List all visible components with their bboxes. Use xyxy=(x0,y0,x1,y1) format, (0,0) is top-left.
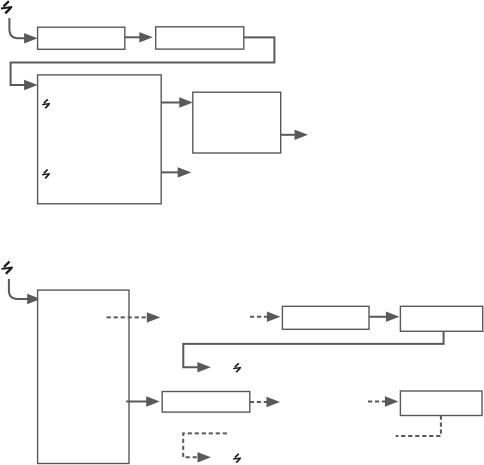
event bolt (top-left start event) xyxy=(1,1,12,13)
wire: elbow connector from B2 around to big box B3 xyxy=(11,37,275,85)
event bolt (bottom-left start event) xyxy=(2,262,13,274)
wire: dashed elbow hanging from B9 bottom xyxy=(396,416,441,437)
wire: curved connector from start event to box B1 xyxy=(9,18,25,38)
event bolt inside B3 (upper) xyxy=(42,99,50,108)
wire: dashed arrow into B7 xyxy=(250,316,268,318)
event bolt (target of B8 connector) xyxy=(233,363,241,372)
box B1 (top row, first) xyxy=(38,27,125,49)
box B6 xyxy=(162,392,250,413)
wire: dashed elbow to bottom event arrow xyxy=(183,433,227,457)
wire: dashed arrow out of B6 xyxy=(250,401,267,403)
box B4 xyxy=(193,92,281,153)
wire: arrow B7 to B8 xyxy=(369,316,387,318)
wire: elbow connector from B8 bottom to event arrow xyxy=(183,331,443,367)
event bolt (bottom target) xyxy=(233,454,241,463)
wire: arrow out of B3 lower right xyxy=(161,171,178,173)
wire: solid arrow B5 to B6 xyxy=(126,401,147,403)
wire: arrow B1 to B2 xyxy=(125,36,141,38)
wire: curved connector from start event to big box B5 xyxy=(9,279,28,299)
wire: dashed arrow into B9 xyxy=(368,401,386,403)
wire: arrow B3 to B4 xyxy=(161,102,180,104)
box B2 (top row, second) xyxy=(156,27,244,49)
box B8 xyxy=(400,306,482,331)
event bolt inside B3 (lower) xyxy=(42,169,50,178)
box B5 (large container box, bottom) xyxy=(38,290,129,463)
wire: arrow out of B4 right side xyxy=(281,134,296,136)
box B3 (large container box) xyxy=(38,75,162,204)
box B9 xyxy=(400,391,482,416)
box B7 xyxy=(282,306,369,329)
wire: dashed arrow from inside B5 (upper) xyxy=(107,316,148,318)
